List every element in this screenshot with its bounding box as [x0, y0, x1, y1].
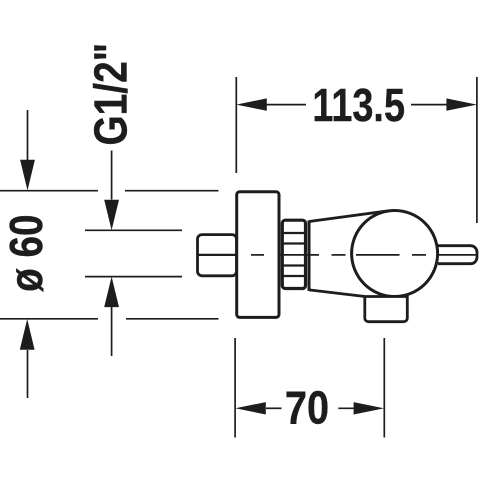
dim dia60 upper arrow stem: [27, 110, 29, 160]
rib line 4: [282, 275, 306, 277]
ribbed nut block: [282, 220, 305, 288]
stub seam line: [197, 254, 236, 256]
dim 113.5 left extension line: [235, 77, 237, 173]
dim G1/2 lower extension line: [85, 276, 182, 278]
hose outlet below knob: [365, 297, 408, 322]
centerline segment through knob: [356, 254, 400, 256]
svg-text:113.5: 113.5: [312, 80, 405, 131]
rib line 3: [282, 264, 306, 266]
rib line 2: [282, 242, 306, 244]
valve body cone top edge: [309, 211, 387, 222]
rib line 1: [282, 232, 306, 234]
dim dia60 upper arrowhead: [20, 160, 35, 191]
svg-text:70: 70: [285, 383, 329, 434]
valve body cone bottom edge: [309, 290, 365, 297]
dim 70 right arrowhead: [354, 402, 385, 414]
dim dia60 lower extension line right part: [126, 318, 219, 320]
dim 70 right extension line: [383, 338, 385, 438]
dim 70 line left segment: [266, 407, 282, 409]
dim 113.5 left arrowhead: [236, 98, 266, 110]
wall flange (rosette, dia 60): [237, 192, 279, 318]
dim dia60 lower arrowhead: [20, 319, 35, 350]
valve body cone left edge: [308, 221, 311, 291]
dim G1/2 upper arrow stem: [111, 151, 113, 200]
dim G1/2 upper arrowhead: [104, 200, 119, 231]
G1/2 connection stub: [198, 235, 237, 276]
dim 70 left extension line: [234, 338, 236, 438]
dim 113.5 right extension line: [476, 77, 478, 223]
dim G1/2 lower arrow stem: [111, 307, 113, 356]
dim 113.5 line right segment: [411, 104, 447, 106]
dim 70 line right segment: [338, 407, 355, 409]
svg-text:G1/2": G1/2": [85, 43, 137, 146]
dim 113.5 line left segment: [266, 104, 306, 106]
svg-text:ø 60: ø 60: [1, 215, 52, 292]
centerline dash before knob: [332, 254, 346, 256]
centerline segment through rib block: [278, 254, 320, 256]
centerline dash in flange: [251, 254, 264, 256]
dim 70 left arrowhead: [235, 402, 265, 414]
dim dia60 lower arrow stem: [27, 350, 29, 398]
centerline dash right of knob: [412, 254, 426, 256]
lever centerline segment: [439, 254, 476, 256]
dim dia60 upper extension line right part: [125, 190, 219, 192]
dim G1/2 lower arrowhead: [104, 277, 119, 308]
dim dia60 upper extension line left part: [0, 190, 98, 192]
mixer knob (circle): [352, 211, 438, 297]
dim dia60 lower extension line left part: [0, 318, 98, 320]
dim 113.5 right arrowhead: [446, 98, 477, 110]
dim G1/2 upper extension line: [85, 229, 182, 231]
lever handle (side view, right of knob): [438, 246, 477, 264]
